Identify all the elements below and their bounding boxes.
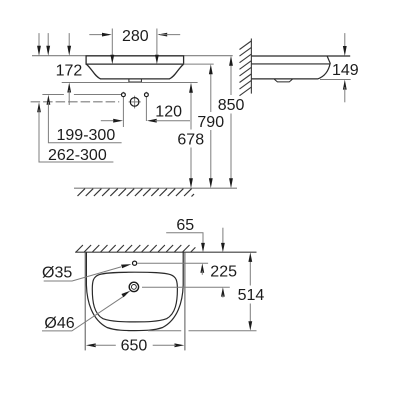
- dimension 149 top arrow: [344, 33, 346, 48]
- left fixing hole (front view): [122, 92, 124, 127]
- tap hole extension line: [138, 262, 209, 264]
- bracket line solid (199-300 reference): [42, 94, 64, 96]
- 650 left extension line: [84, 252, 86, 350]
- 65 up arrow at tap line: [200, 263, 204, 272]
- side basin deck line: [251, 63, 329, 65]
- side wall hatching: [240, 41, 252, 96]
- dimension 850 vertical line: [230, 64, 232, 182]
- dimension 280 line left segment: [89, 34, 109, 36]
- dimension 790 vertical line: [210, 72, 212, 181]
- plan wall line: [75, 251, 256, 253]
- side basin rim top line + 149 top extension: [251, 55, 350, 57]
- svg-text:850: 850: [218, 97, 245, 114]
- 149 bottom extension line: [320, 79, 351, 81]
- drain extension line: [142, 286, 230, 288]
- extension line under basin (172/678 reference): [62, 82, 198, 84]
- svg-text:514: 514: [238, 287, 265, 304]
- drain circle with centerlines (front view): [129, 101, 141, 103]
- side wall line: [250, 39, 252, 94]
- dimension 225 down arrow at wall: [222, 228, 224, 245]
- side drain stub: [274, 79, 293, 82]
- basin bowl profile (front view): [86, 64, 183, 79]
- 262-300 bottom arrow and leader: [37, 102, 41, 112]
- dimension 678 vertical line: [190, 91, 192, 181]
- dimension 120 right arrowhead (points left) and line: [147, 119, 157, 123]
- svg-text:149: 149: [332, 62, 359, 79]
- svg-text:Ø46: Ø46: [44, 315, 74, 332]
- 650 right extension line: [184, 252, 186, 350]
- 199-300 bottom arrow and leader: [47, 95, 51, 105]
- 65 down arrow at wall: [201, 243, 205, 252]
- wall top line: [32, 55, 233, 57]
- svg-text:199-300: 199-300: [57, 127, 116, 144]
- svg-text:Ø35: Ø35: [42, 265, 72, 282]
- 199-300 top arrow: [47, 33, 49, 48]
- floor hatching: [78, 189, 195, 197]
- dimension 280 left arrowhead: [102, 33, 112, 37]
- svg-text:790: 790: [197, 114, 224, 131]
- floor line: [74, 187, 237, 189]
- right fixing hole (front view): [145, 92, 147, 121]
- drain circles (plan): [129, 282, 138, 291]
- tap hole (plan): [133, 261, 137, 265]
- svg-text:225: 225: [210, 263, 237, 280]
- dimension 280 line right segment: [160, 34, 180, 36]
- plan front extension line (514 bottom reference): [148, 330, 257, 332]
- 280 right extension line with tap-hole arrow: [156, 29, 158, 58]
- plan wall hatching: [76, 245, 195, 252]
- svg-text:650: 650: [121, 337, 148, 354]
- deck extension line to 790: [184, 63, 214, 65]
- dimension 149 bottom arrow: [343, 80, 347, 90]
- bracket line dashed (262-300 reference): [31, 101, 120, 103]
- basin outer outline (plan): [86, 252, 183, 330]
- 262-300 top arrow: [38, 33, 40, 48]
- 225 up arrow at drain line: [221, 287, 225, 296]
- svg-text:172: 172: [56, 63, 83, 80]
- svg-text:678: 678: [177, 131, 204, 148]
- drain boss (front view): [129, 79, 142, 82]
- basin inner outline (plan): [92, 272, 177, 322]
- svg-text:120: 120: [155, 104, 182, 121]
- svg-text:262-300: 262-300: [48, 147, 107, 164]
- svg-text:280: 280: [122, 28, 149, 45]
- dimension 120 left arrowhead (points right at hole line): [101, 120, 113, 122]
- 172 top arrow: [68, 33, 70, 48]
- basin rim (front view): [86, 56, 184, 64]
- 172 bottom arrow: [67, 83, 71, 93]
- side basin front profile: [251, 56, 330, 79]
- svg-text:65: 65: [176, 217, 194, 234]
- 280 left extension line with tap-hole arrow: [111, 29, 113, 58]
- dimension 650 line and arrows: [86, 343, 96, 347]
- dimension 280 right arrowhead: [157, 33, 167, 37]
- dimension 514 vertical line: [249, 260, 251, 323]
